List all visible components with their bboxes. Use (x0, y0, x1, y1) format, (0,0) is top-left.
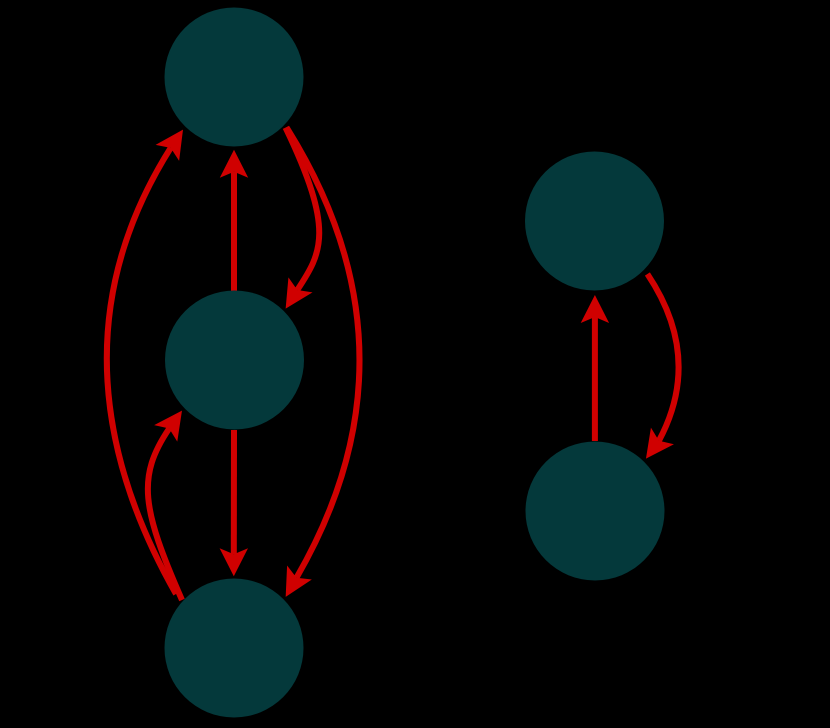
node E (bottom-right) (526, 442, 665, 581)
node A (top-left) (165, 8, 304, 147)
wire: edge middle-left node to bottom-left node (straight down arrow) (231, 430, 237, 554)
wire: edge bottom-right node to top-right node (straight up arrow) (592, 317, 598, 441)
wire: edge top-left node to middle-left node (small right curve) (286, 128, 320, 290)
node C (bottom-left) (165, 579, 304, 718)
wire: edge middle-left node to top-left node (straight up arrow) (231, 172, 237, 291)
wire: edge top-right node to bottom-right node (right curve) (647, 274, 678, 441)
node B (middle-left) (165, 291, 304, 430)
node D (top-right) (525, 152, 664, 291)
wire: edge top-left node to bottom-left node (big right curve) (287, 127, 360, 577)
wire: edge bottom-left node to middle-left node (small left curve) (148, 429, 182, 601)
wire: edge bottom-left node to top-left node (big left curve) (107, 148, 176, 594)
